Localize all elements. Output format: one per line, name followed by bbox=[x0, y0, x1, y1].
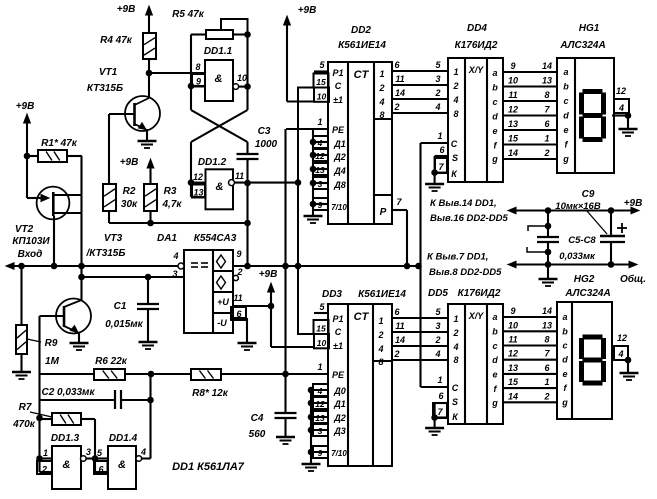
svg-text:DD3: DD3 bbox=[322, 289, 342, 300]
svg-text:DD1.3: DD1.3 bbox=[51, 433, 80, 444]
svg-text:1: 1 bbox=[317, 362, 322, 372]
svg-text:4: 4 bbox=[140, 447, 146, 457]
svg-text:g: g bbox=[491, 154, 498, 164]
svg-text:4: 4 bbox=[617, 349, 623, 359]
svg-text:R2: R2 bbox=[123, 186, 136, 197]
svg-text:c: c bbox=[492, 97, 497, 107]
svg-text:g: g bbox=[561, 397, 568, 407]
svg-text:g: g bbox=[491, 398, 498, 408]
svg-text:Выв.8 DD2-DD5: Выв.8 DD2-DD5 bbox=[429, 267, 502, 278]
svg-text:12: 12 bbox=[315, 151, 325, 161]
svg-text:2: 2 bbox=[393, 102, 399, 112]
svg-text:10: 10 bbox=[317, 92, 327, 102]
svg-text:Д8: Д8 bbox=[333, 180, 346, 190]
svg-text:8: 8 bbox=[379, 110, 384, 120]
svg-text:15: 15 bbox=[508, 134, 519, 144]
svg-text:14: 14 bbox=[508, 148, 518, 158]
svg-text:2: 2 bbox=[452, 328, 458, 338]
svg-text:P: P bbox=[380, 207, 387, 218]
svg-text:13: 13 bbox=[508, 119, 518, 129]
svg-text:1: 1 bbox=[317, 117, 322, 127]
svg-text:9: 9 bbox=[236, 249, 241, 259]
svg-text:11: 11 bbox=[395, 321, 404, 331]
svg-text:e: e bbox=[562, 369, 567, 379]
svg-text:R3: R3 bbox=[164, 186, 177, 197]
svg-text:1М: 1М bbox=[45, 356, 60, 367]
svg-text:e: e bbox=[563, 125, 568, 135]
svg-text:Д1: Д1 bbox=[333, 139, 346, 149]
svg-text:b: b bbox=[492, 327, 498, 337]
svg-text:2: 2 bbox=[434, 335, 440, 345]
svg-text:b: b bbox=[492, 83, 498, 93]
svg-text:DD4: DD4 bbox=[467, 23, 487, 34]
svg-text:11: 11 bbox=[233, 293, 242, 303]
svg-text:0,033мк: 0,033мк bbox=[559, 251, 596, 262]
svg-text:13: 13 bbox=[193, 188, 203, 198]
svg-text:C: C bbox=[335, 327, 342, 337]
svg-text:R9: R9 bbox=[45, 338, 58, 349]
svg-text:КТ315Б: КТ315Б bbox=[87, 83, 123, 94]
svg-text:R8* 12к: R8* 12к bbox=[192, 388, 229, 399]
svg-text:АЛС324А: АЛС324А bbox=[564, 288, 610, 299]
svg-text:C: C bbox=[335, 81, 342, 91]
svg-text:P1: P1 bbox=[332, 68, 343, 78]
svg-text:К554СА3: К554СА3 bbox=[194, 233, 237, 244]
svg-text:С2 0,033мк: С2 0,033мк bbox=[41, 387, 95, 398]
svg-text:+9В: +9В bbox=[624, 198, 643, 209]
svg-text:14: 14 bbox=[395, 88, 405, 98]
svg-text:VT3: VT3 bbox=[104, 233, 123, 244]
svg-text:DD1.4: DD1.4 bbox=[109, 433, 138, 444]
svg-text:a: a bbox=[492, 68, 497, 78]
svg-text:9: 9 bbox=[510, 306, 515, 316]
svg-text:1: 1 bbox=[544, 134, 549, 144]
svg-text:d: d bbox=[492, 112, 498, 122]
svg-text:12: 12 bbox=[508, 105, 518, 115]
svg-text:0,015мк: 0,015мк bbox=[105, 319, 143, 330]
svg-text:2: 2 bbox=[452, 81, 458, 91]
svg-text:Д2: Д2 bbox=[333, 152, 346, 162]
svg-text:c: c bbox=[563, 96, 568, 106]
svg-text:2: 2 bbox=[377, 330, 383, 340]
svg-text:c: c bbox=[562, 341, 567, 351]
svg-text:C: C bbox=[451, 139, 458, 149]
svg-text:8: 8 bbox=[378, 357, 383, 367]
svg-text:12: 12 bbox=[508, 349, 518, 359]
svg-text:C: C bbox=[452, 383, 459, 393]
svg-text:+9В: +9В bbox=[259, 269, 278, 280]
svg-text:4: 4 bbox=[377, 344, 383, 354]
svg-text:11: 11 bbox=[235, 171, 244, 181]
svg-text:8: 8 bbox=[544, 335, 549, 345]
svg-text:/КТ315Б: /КТ315Б bbox=[86, 248, 126, 259]
svg-text:X/Y: X/Y bbox=[468, 65, 485, 75]
svg-text:a: a bbox=[563, 67, 568, 77]
svg-text:14: 14 bbox=[542, 61, 552, 71]
svg-text:3: 3 bbox=[435, 321, 440, 331]
svg-text:R6 22к: R6 22к bbox=[95, 356, 128, 367]
svg-text:С9: С9 bbox=[582, 189, 595, 200]
svg-text:2: 2 bbox=[543, 148, 549, 158]
svg-text:9: 9 bbox=[318, 448, 323, 458]
svg-text:Д1: Д1 bbox=[333, 399, 346, 409]
svg-text:12: 12 bbox=[617, 333, 627, 343]
svg-text:4: 4 bbox=[618, 103, 624, 113]
svg-text:13: 13 bbox=[315, 165, 325, 175]
svg-text:13: 13 bbox=[542, 76, 552, 86]
svg-text:С3: С3 bbox=[258, 126, 271, 137]
svg-text:К Выв.7 DD1,: К Выв.7 DD1, bbox=[427, 252, 488, 263]
svg-text:С1: С1 bbox=[114, 301, 127, 312]
svg-text:14: 14 bbox=[542, 306, 552, 316]
svg-text:Д0: Д0 bbox=[333, 386, 346, 396]
svg-text:R7: R7 bbox=[19, 402, 32, 413]
svg-text:4: 4 bbox=[434, 102, 440, 112]
svg-text:С4: С4 bbox=[251, 413, 264, 424]
svg-text:11: 11 bbox=[508, 335, 517, 345]
svg-text:PE: PE bbox=[332, 370, 345, 380]
svg-text:8: 8 bbox=[453, 109, 458, 119]
svg-text:3: 3 bbox=[318, 179, 323, 189]
svg-text:3: 3 bbox=[435, 74, 440, 84]
svg-text:CT: CT bbox=[354, 69, 370, 81]
svg-text:4,7к: 4,7к bbox=[162, 199, 183, 210]
svg-text:9: 9 bbox=[196, 77, 201, 87]
svg-text:Выв.16 DD2-DD5: Выв.16 DD2-DD5 bbox=[430, 213, 508, 224]
svg-text:R1* 47к: R1* 47к bbox=[41, 138, 78, 149]
svg-text:DD1.1: DD1.1 bbox=[204, 46, 233, 57]
svg-text:1: 1 bbox=[437, 375, 442, 385]
svg-text:Общ.: Общ. bbox=[620, 273, 646, 285]
svg-text:К561ИЕ14: К561ИЕ14 bbox=[338, 40, 386, 51]
svg-text:7/10: 7/10 bbox=[331, 449, 347, 458]
svg-text:АЛС324А: АЛС324А bbox=[559, 40, 605, 51]
svg-text:13: 13 bbox=[542, 320, 552, 330]
svg-text:2: 2 bbox=[378, 83, 384, 93]
svg-text:CT: CT bbox=[354, 311, 370, 323]
svg-text:11: 11 bbox=[395, 74, 404, 84]
svg-text:7/10: 7/10 bbox=[331, 203, 347, 212]
svg-text:e: e bbox=[492, 126, 497, 136]
svg-text:1: 1 bbox=[379, 69, 384, 79]
svg-text:&: & bbox=[118, 459, 126, 471]
svg-text:1: 1 bbox=[453, 67, 458, 77]
svg-text:12: 12 bbox=[616, 86, 626, 96]
svg-text:КП103И: КП103И bbox=[12, 236, 50, 247]
svg-text:8: 8 bbox=[544, 90, 549, 100]
svg-text:1: 1 bbox=[437, 131, 442, 141]
svg-text:PE: PE bbox=[332, 125, 345, 135]
svg-text:3: 3 bbox=[172, 269, 177, 279]
svg-text:4: 4 bbox=[378, 97, 384, 107]
svg-text:S: S bbox=[452, 153, 458, 163]
svg-text:d: d bbox=[562, 355, 568, 365]
svg-text:4: 4 bbox=[452, 342, 458, 352]
svg-text:DD1.2: DD1.2 bbox=[198, 157, 227, 168]
svg-text:+9В: +9В bbox=[298, 5, 317, 16]
svg-text:DD1 К561ЛА7: DD1 К561ЛА7 bbox=[172, 461, 245, 473]
svg-text:2: 2 bbox=[434, 88, 440, 98]
svg-text:Д2: Д2 bbox=[333, 413, 346, 423]
svg-text:±1: ±1 bbox=[333, 95, 343, 105]
svg-text:1: 1 bbox=[544, 377, 549, 387]
svg-text:10: 10 bbox=[508, 76, 518, 86]
svg-text:8: 8 bbox=[453, 355, 458, 365]
svg-text:S: S bbox=[452, 397, 458, 407]
svg-text:+9В: +9В bbox=[117, 4, 136, 15]
svg-text:3: 3 bbox=[318, 426, 323, 436]
svg-text:±1: ±1 bbox=[333, 341, 343, 351]
svg-text:&: & bbox=[215, 73, 223, 85]
svg-text:Вход: Вход bbox=[18, 249, 43, 260]
svg-text:Д4: Д4 bbox=[333, 166, 346, 176]
svg-text:4: 4 bbox=[317, 386, 323, 396]
svg-text:К176ИД2: К176ИД2 bbox=[455, 40, 498, 51]
svg-text:e: e bbox=[492, 370, 497, 380]
svg-text:К561ИЕ14: К561ИЕ14 bbox=[358, 289, 406, 300]
svg-text:-U: -U bbox=[217, 318, 227, 328]
svg-text:С5-С8: С5-С8 bbox=[568, 235, 596, 246]
svg-text:15: 15 bbox=[316, 324, 326, 334]
svg-text:13: 13 bbox=[508, 363, 518, 373]
svg-text:10: 10 bbox=[237, 73, 247, 83]
svg-text:&: & bbox=[63, 459, 71, 471]
svg-text:c: c bbox=[492, 341, 497, 351]
svg-text:8: 8 bbox=[195, 62, 200, 72]
svg-text:X/Y: X/Y bbox=[468, 311, 485, 321]
svg-text:DD5: DD5 bbox=[428, 288, 448, 299]
svg-text:10: 10 bbox=[317, 338, 327, 348]
svg-text:d: d bbox=[492, 355, 498, 365]
svg-text:Д3: Д3 bbox=[333, 426, 346, 436]
svg-text:P1: P1 bbox=[332, 314, 343, 324]
svg-text:b: b bbox=[562, 326, 568, 336]
svg-text:b: b bbox=[563, 82, 569, 92]
svg-text:DD2: DD2 bbox=[351, 25, 371, 36]
svg-text:4: 4 bbox=[172, 251, 178, 261]
svg-text:R4 47к: R4 47к bbox=[100, 35, 133, 46]
svg-text:14: 14 bbox=[508, 391, 518, 401]
svg-text:4: 4 bbox=[452, 95, 458, 105]
svg-text:12: 12 bbox=[315, 399, 325, 409]
svg-text:1: 1 bbox=[378, 316, 383, 326]
svg-text:560: 560 bbox=[249, 429, 266, 440]
svg-text:15: 15 bbox=[316, 77, 326, 87]
svg-text:R5 47к: R5 47к bbox=[172, 9, 205, 20]
svg-text:2: 2 bbox=[543, 391, 549, 401]
svg-text:VT2: VT2 bbox=[15, 224, 34, 235]
svg-text:15: 15 bbox=[508, 377, 519, 387]
svg-text:+9В: +9В bbox=[120, 157, 139, 168]
svg-text:a: a bbox=[492, 312, 497, 322]
svg-text:4: 4 bbox=[317, 138, 323, 148]
svg-text:4: 4 bbox=[434, 349, 440, 359]
svg-text:1: 1 bbox=[43, 448, 48, 458]
svg-text:9: 9 bbox=[318, 200, 323, 210]
svg-text:9: 9 bbox=[510, 61, 515, 71]
svg-text:11: 11 bbox=[508, 90, 517, 100]
svg-text:+U: +U bbox=[217, 297, 229, 307]
svg-text:d: d bbox=[563, 111, 569, 121]
svg-text:+9В: +9В bbox=[16, 101, 35, 112]
svg-text:a: a bbox=[562, 312, 567, 322]
svg-text:К176ИД2: К176ИД2 bbox=[458, 288, 501, 299]
svg-text:HG1: HG1 bbox=[579, 23, 600, 34]
svg-text:HG2: HG2 bbox=[574, 274, 595, 285]
svg-text:12: 12 bbox=[193, 172, 203, 182]
svg-text:14: 14 bbox=[395, 335, 405, 345]
svg-text:1000: 1000 bbox=[255, 139, 278, 150]
svg-text:3: 3 bbox=[86, 447, 91, 457]
svg-text:g: g bbox=[562, 154, 569, 164]
svg-text:&: & bbox=[216, 181, 224, 193]
svg-text:DA1: DA1 bbox=[157, 233, 177, 244]
svg-text:1: 1 bbox=[453, 314, 458, 324]
svg-text:К Выв.14 DD1,: К Выв.14 DD1, bbox=[430, 198, 497, 209]
svg-text:13: 13 bbox=[315, 413, 325, 423]
svg-text:30к: 30к bbox=[121, 199, 138, 210]
svg-text:2: 2 bbox=[41, 465, 47, 475]
svg-text:470к: 470к bbox=[12, 419, 36, 430]
svg-text:10: 10 bbox=[508, 320, 518, 330]
svg-text:VT1: VT1 bbox=[99, 67, 118, 78]
svg-text:2: 2 bbox=[393, 349, 399, 359]
